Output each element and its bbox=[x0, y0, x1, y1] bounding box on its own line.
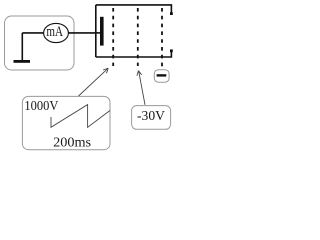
svg-text:1000V: 1000V bbox=[24, 99, 58, 114]
svg-text:mA: mA bbox=[46, 24, 63, 40]
svg-text:-30V: -30V bbox=[137, 109, 165, 124]
svg-text:200ms: 200ms bbox=[53, 135, 91, 150]
